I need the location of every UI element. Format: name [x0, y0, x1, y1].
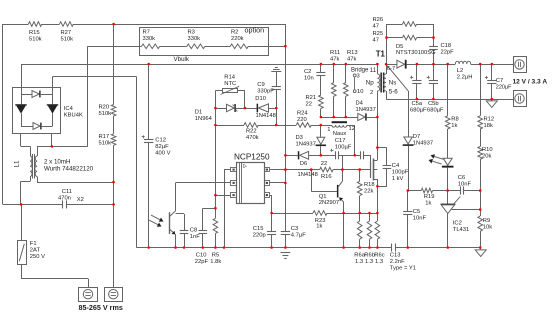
svg-text:100µF: 100µF	[335, 145, 352, 151]
svg-text:2 x 10mH: 2 x 10mH	[44, 158, 70, 165]
svg-text:C12: C12	[155, 137, 166, 143]
svg-text:C5a: C5a	[412, 101, 423, 107]
svg-text:C3: C3	[291, 226, 298, 232]
svg-text:C13: C13	[390, 252, 401, 258]
svg-text:Np: Np	[366, 79, 374, 86]
svg-text:1.3: 1.3	[365, 259, 373, 265]
svg-text:220k: 220k	[231, 36, 244, 42]
svg-text:1.3: 1.3	[375, 259, 383, 265]
svg-text:R12: R12	[484, 117, 495, 123]
svg-text:220: 220	[297, 117, 307, 123]
svg-text:510k: 510k	[29, 36, 42, 42]
svg-text:85-265 V rms: 85-265 V rms	[79, 303, 123, 312]
svg-text:R27: R27	[61, 30, 72, 36]
svg-text:4.7µF: 4.7µF	[291, 232, 306, 238]
svg-text:F1: F1	[30, 241, 37, 247]
svg-text:10k: 10k	[483, 224, 492, 230]
svg-text:10nF: 10nF	[413, 215, 427, 221]
svg-text:IC2: IC2	[453, 220, 462, 226]
svg-text:T1: T1	[376, 50, 386, 59]
svg-text:680µF: 680µF	[427, 107, 444, 113]
svg-text:Type = Y1: Type = Y1	[390, 265, 416, 271]
svg-text:C5: C5	[413, 209, 420, 215]
svg-text:C5b: C5b	[428, 101, 439, 107]
svg-text:D4: D4	[356, 100, 364, 106]
svg-text:12: 12	[349, 126, 355, 132]
svg-text:C6: C6	[458, 175, 465, 181]
svg-text:R10: R10	[482, 147, 493, 153]
svg-text:KBU4K: KBU4K	[64, 112, 83, 118]
svg-text:D-: D-	[243, 164, 248, 169]
svg-text:option: option	[245, 26, 265, 35]
svg-text:100pF: 100pF	[392, 169, 409, 175]
svg-text:5-6: 5-6	[389, 88, 399, 95]
svg-text:R16: R16	[321, 174, 332, 180]
svg-text:22: 22	[306, 101, 312, 107]
svg-text:D7: D7	[413, 134, 420, 140]
svg-text:220µF: 220µF	[496, 84, 512, 90]
svg-text:R19: R19	[424, 194, 435, 200]
svg-text:1.8k: 1.8k	[210, 259, 221, 265]
svg-text:400 V: 400 V	[155, 150, 170, 156]
svg-text:L1: L1	[14, 160, 21, 167]
svg-text:22: 22	[321, 161, 327, 167]
svg-text:250 V: 250 V	[30, 254, 45, 260]
svg-text:R6c: R6c	[374, 252, 384, 258]
svg-text:D3: D3	[296, 135, 303, 141]
svg-text:C18: C18	[441, 43, 452, 49]
svg-text:NTC: NTC	[224, 81, 236, 87]
svg-text:3: 3	[357, 73, 360, 79]
svg-text:IC4: IC4	[64, 106, 74, 112]
svg-text:330pF: 330pF	[257, 88, 274, 94]
svg-text:Vbulk: Vbulk	[174, 56, 190, 63]
svg-text:R2: R2	[231, 30, 238, 36]
svg-text:6-7: 6-7	[387, 66, 395, 72]
svg-text:1nF: 1nF	[190, 234, 200, 240]
svg-text:1N964: 1N964	[195, 116, 213, 122]
svg-text:X2: X2	[77, 197, 84, 203]
svg-text:R13: R13	[347, 50, 358, 56]
svg-text:22k: 22k	[364, 188, 373, 194]
svg-text:1k: 1k	[316, 224, 322, 230]
svg-text:R21: R21	[306, 95, 317, 101]
svg-text:2.2nF: 2.2nF	[390, 259, 405, 265]
svg-text:C9: C9	[257, 82, 264, 88]
svg-text:C8: C8	[190, 228, 197, 234]
svg-text:510k: 510k	[61, 36, 74, 42]
svg-text:330k: 330k	[188, 36, 201, 42]
svg-text:12 V / 3.3 A: 12 V / 3.3 A	[513, 79, 548, 86]
svg-text:1: 1	[327, 127, 330, 133]
svg-text:1N4937: 1N4937	[413, 140, 433, 146]
svg-text:510k: 510k	[99, 111, 112, 117]
svg-text:R3: R3	[188, 30, 195, 36]
svg-text:D6: D6	[300, 161, 307, 167]
svg-text:2.2µH: 2.2µH	[457, 74, 473, 80]
svg-text:R20: R20	[99, 104, 110, 110]
svg-text:2AT: 2AT	[30, 247, 41, 253]
svg-text:82µF: 82µF	[155, 144, 169, 150]
svg-text:TL431: TL431	[453, 227, 469, 233]
svg-text:NTST30100SG: NTST30100SG	[396, 50, 436, 56]
svg-text:R24: R24	[297, 111, 308, 117]
svg-text:R18: R18	[364, 182, 375, 188]
svg-text:1 kV: 1 kV	[392, 176, 404, 182]
svg-text:47k: 47k	[347, 56, 356, 62]
svg-text:2: 2	[370, 90, 373, 96]
svg-text:1N4937: 1N4937	[356, 107, 376, 113]
svg-text:470k: 470k	[246, 135, 259, 141]
svg-text:Ns: Ns	[389, 79, 397, 86]
svg-text:C15: C15	[253, 226, 264, 232]
svg-text:1.3: 1.3	[355, 259, 363, 265]
svg-text:47k: 47k	[330, 56, 339, 62]
svg-text:R26: R26	[373, 17, 384, 23]
svg-text:22pF: 22pF	[441, 50, 455, 56]
svg-text:20k: 20k	[482, 154, 491, 160]
svg-text:R9: R9	[483, 218, 490, 224]
svg-text:18k: 18k	[484, 123, 493, 129]
svg-text:10n: 10n	[304, 75, 314, 81]
svg-text:C7: C7	[496, 78, 503, 84]
svg-text:NCP1250: NCP1250	[234, 153, 270, 162]
svg-text:47: 47	[373, 37, 379, 43]
svg-text:R11: R11	[330, 50, 340, 56]
svg-text:C4: C4	[392, 163, 400, 169]
svg-text:R7: R7	[143, 30, 150, 36]
svg-text:C11: C11	[62, 189, 72, 195]
svg-text:1k: 1k	[425, 200, 431, 206]
svg-text:1k: 1k	[451, 123, 457, 129]
svg-text:330k: 330k	[143, 36, 156, 42]
svg-text:Naux: Naux	[333, 131, 347, 137]
svg-text:22pF: 22pF	[195, 259, 209, 265]
svg-text:R5: R5	[212, 252, 219, 258]
svg-text:10nF: 10nF	[458, 181, 472, 187]
svg-text:R22: R22	[246, 128, 257, 134]
svg-text:C17: C17	[335, 138, 346, 144]
svg-text:1N4148: 1N4148	[298, 172, 318, 178]
svg-text:Bridge: Bridge	[351, 68, 369, 74]
svg-text:Wurth 744822120: Wurth 744822120	[44, 165, 94, 172]
svg-text:680µF: 680µF	[410, 107, 427, 113]
svg-text:10: 10	[357, 89, 363, 95]
svg-text:11: 11	[370, 68, 377, 74]
svg-text:470n: 470n	[58, 195, 71, 201]
svg-text:2N2907: 2N2907	[319, 200, 339, 206]
svg-text:D10: D10	[255, 96, 266, 102]
svg-text:1N4937: 1N4937	[296, 141, 316, 147]
svg-text:510k: 510k	[99, 140, 112, 146]
svg-text:47: 47	[373, 24, 379, 30]
svg-text:L2: L2	[457, 68, 463, 74]
svg-text:C2: C2	[304, 69, 311, 75]
svg-text:R14: R14	[224, 74, 235, 80]
svg-text:D1: D1	[195, 109, 202, 115]
svg-text:R17: R17	[99, 134, 110, 140]
svg-text:R25: R25	[373, 31, 384, 37]
svg-text:220p: 220p	[253, 232, 266, 238]
svg-text:1N4148: 1N4148	[256, 113, 276, 119]
svg-text:R15: R15	[29, 30, 40, 36]
svg-text:C10: C10	[196, 252, 207, 258]
svg-text:R8: R8	[451, 117, 458, 123]
